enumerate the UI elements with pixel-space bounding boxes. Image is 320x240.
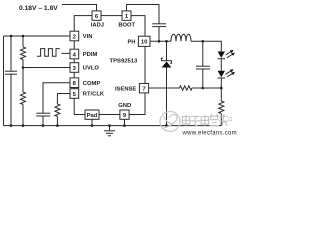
pin box 7 ISENSE (139, 84, 148, 93)
node gnd-sym (108, 124, 111, 127)
node vin-c1 (10, 35, 13, 38)
node gnd-pad (91, 124, 94, 127)
node vin-r1 (22, 35, 25, 38)
wire input loop left rail (3, 36, 5, 126)
ground symbol (104, 126, 115, 136)
pin box 10 PH (138, 36, 150, 46)
watermark logo circle (160, 112, 180, 132)
pin box 3 UVLO (70, 63, 79, 73)
node gnd-diode (165, 124, 168, 127)
node gnd-c2 (42, 124, 45, 127)
LED D2 (218, 50, 235, 71)
pin box 6 IADJ (92, 11, 101, 20)
resistor R4 isense filter (179, 86, 193, 90)
node led-rsense (220, 87, 223, 90)
wire PH net (150, 40, 171, 42)
svg-text:0.18V – 1.8V: 0.18V – 1.8V (19, 5, 58, 12)
svg-text:PH: PH (127, 40, 135, 46)
node gnd-pin9 (123, 124, 126, 127)
wire COMP branch (43, 83, 70, 113)
wire Pad stub (91, 119, 93, 125)
svg-text:UVLO: UVLO (83, 66, 100, 72)
svg-text:COMP: COMP (83, 81, 101, 87)
capacitor C1 input (x=11) (5, 36, 17, 126)
resistor R2 UVLO bottom (21, 68, 26, 126)
pin box 8 COMP (70, 78, 79, 88)
diode D1 schottky catch (161, 41, 172, 125)
capacitor C2 COMP (36, 113, 50, 125)
wire ground bus (4, 125, 222, 127)
node vout (202, 40, 205, 43)
node ph-boot (158, 40, 161, 43)
svg-text:VIN: VIN (83, 34, 93, 40)
wire inductor to output node (191, 41, 221, 51)
pin numbers (73, 14, 149, 119)
node gnd-c1 (10, 124, 13, 127)
wire IADJ label to pin 6 (62, 5, 97, 12)
resistor R1 UVLO top (21, 36, 26, 68)
svg-text:PDIM: PDIM (83, 52, 98, 58)
svg-text:GND: GND (118, 103, 131, 109)
resistor R3 RT/CLK (55, 104, 60, 126)
svg-text:IADJ: IADJ (91, 22, 104, 28)
svg-text:10: 10 (141, 40, 148, 46)
node gnd-r3 (56, 124, 59, 127)
pin boxes (70, 11, 150, 119)
pin box Pad (85, 110, 99, 119)
svg-text:TPS92513: TPS92513 (110, 58, 139, 64)
pin box 9 GND (120, 110, 129, 119)
wire PDIM dash to pin 4 (62, 52, 71, 54)
svg-text:BOOT: BOOT (118, 22, 135, 28)
pin box 5 RT/CLK (70, 89, 79, 99)
pin box 4 PDIM (70, 49, 79, 59)
node cap-isense (202, 87, 205, 90)
pin labels (83, 22, 137, 109)
node gnd-r2 (22, 124, 25, 127)
watermark chinese text (182, 114, 232, 126)
capacitor C4 output (196, 66, 210, 88)
inductor L1 (171, 34, 191, 41)
resistor R5 current sense (219, 88, 224, 126)
wire RT/CLK branch (57, 94, 70, 105)
pin box 1 BOOT (122, 11, 131, 20)
pin box 2 VIN (70, 31, 79, 41)
svg-text:ISENSE: ISENSE (115, 86, 136, 92)
wire output cap branch (202, 41, 204, 66)
wire ISENSE net (149, 87, 179, 89)
IC U1 TPS92513 body (74, 16, 145, 115)
svg-text:Pad: Pad (87, 113, 98, 119)
wire GND pin stub (124, 119, 126, 126)
node uvlo tap (22, 66, 25, 69)
node ph-diode (165, 40, 168, 43)
capacitor C3 BOOT (152, 24, 166, 42)
svg-text:RT/CLK: RT/CLK (83, 92, 105, 98)
svg-text:www.elecfans.com: www.elecfans.com (182, 131, 237, 137)
wire UVLO tap to pin 3 (23, 67, 70, 69)
wire VIN rail (4, 35, 71, 37)
PWM source waveform (PDIM) (37, 49, 60, 57)
LED D3 (218, 69, 235, 88)
wire BOOT pin 1 to cap (127, 5, 160, 24)
